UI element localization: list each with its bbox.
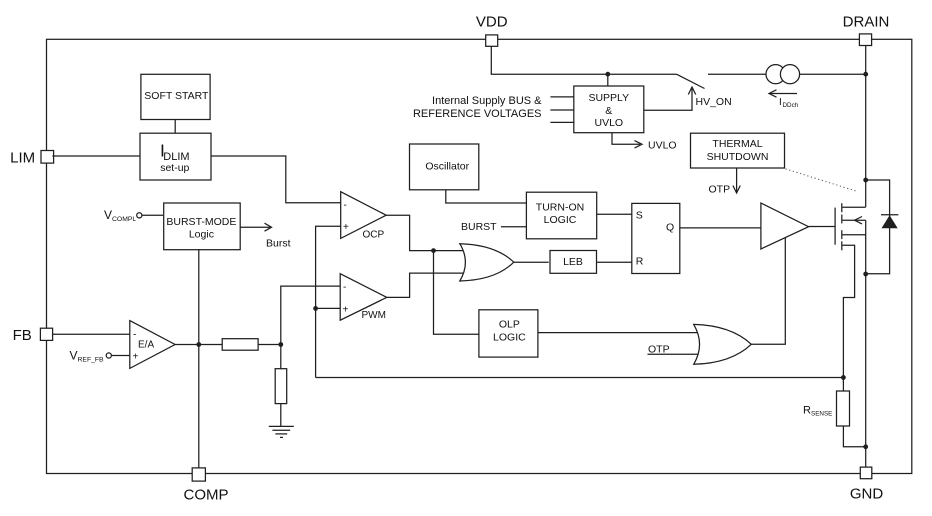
svg-text:S: S bbox=[636, 209, 643, 221]
block IDLIM set-up bbox=[140, 133, 211, 180]
wire DRAIN pin to drain rail bbox=[865, 46, 867, 208]
wire COMP rail (BURST-MODE bottom to COMP pin) bbox=[198, 249, 200, 468]
svg-text:-: - bbox=[344, 200, 347, 211]
wire thermal dotted link bbox=[786, 169, 858, 192]
svg-text:Q: Q bbox=[666, 221, 674, 233]
svg-text:+: + bbox=[343, 222, 349, 233]
wire supply tap to SUPPLY box bbox=[607, 74, 609, 86]
resistor R2 vertical bbox=[275, 369, 287, 404]
svg-text:REFERENCE VOLTAGES: REFERENCE VOLTAGES bbox=[413, 108, 542, 120]
wire R2 to ground bbox=[280, 404, 282, 427]
wire drain dash bbox=[843, 206, 866, 208]
svg-text:TURN-ON: TURN-ON bbox=[536, 202, 584, 214]
svg-text:LOGIC: LOGIC bbox=[493, 331, 526, 343]
node E/A output junction bbox=[196, 342, 201, 347]
wire LIM to IDLIM bbox=[52, 155, 140, 157]
node divider junction bbox=[278, 342, 283, 347]
block TURN-ON LOGIC bbox=[526, 192, 596, 239]
svg-text:COMP: COMP bbox=[184, 487, 229, 504]
svg-text:V: V bbox=[104, 208, 112, 222]
pin VDD bbox=[476, 13, 508, 46]
block BURST-MODE Logic bbox=[164, 203, 241, 250]
wire Oscillator to TURN-ON LOGIC bbox=[446, 190, 527, 203]
node drain rail top junction bbox=[863, 72, 868, 77]
svg-text:THERMAL: THERMAL bbox=[712, 138, 762, 150]
wire switch to current source bbox=[708, 73, 766, 75]
svg-text:R: R bbox=[636, 256, 644, 268]
node source rail bottom junction bbox=[863, 444, 868, 449]
svg-text:LIM: LIM bbox=[10, 149, 35, 166]
wire PWM output to OR1 bottom input bbox=[387, 273, 467, 297]
wire supply bus stubs bbox=[550, 97, 573, 123]
svg-text:DLIM: DLIM bbox=[163, 151, 189, 163]
svg-text:+: + bbox=[343, 304, 349, 315]
wire VCOMPL to BURST-MODE bbox=[142, 214, 163, 216]
wire OTP to OR2 bottom input bbox=[648, 353, 701, 355]
resistor RSENSE bbox=[837, 391, 850, 426]
node OCP-OLP junction bbox=[431, 248, 436, 253]
wire driver to MOSFET gate bbox=[809, 226, 836, 228]
wire OCP output to OR1 top input bbox=[386, 215, 467, 250]
block LEB bbox=[550, 251, 597, 274]
block OLP LOGIC bbox=[479, 310, 538, 357]
svg-text:LEB: LEB bbox=[563, 256, 583, 268]
wire OR1 output to LEB bbox=[514, 261, 549, 263]
svg-text:DDch: DDch bbox=[783, 102, 799, 109]
pin DRAIN bbox=[843, 13, 890, 45]
pin LIM bbox=[10, 149, 53, 166]
node VCOMPL terminal bbox=[137, 213, 142, 218]
op-amp E/A bbox=[130, 321, 175, 369]
gate OR2 bbox=[694, 324, 752, 364]
pin FB bbox=[13, 327, 53, 344]
wire R1 to divider node bbox=[258, 344, 281, 346]
node supply tap junction bbox=[605, 72, 610, 77]
wire IDLIM to OCP minus bbox=[211, 156, 341, 203]
svg-text:SUPPLY: SUPPLY bbox=[588, 92, 629, 104]
svg-text:UVLO: UVLO bbox=[595, 117, 624, 129]
block THERMAL SHUTDOWN bbox=[691, 133, 785, 168]
ground bbox=[269, 426, 294, 437]
svg-text:E/A: E/A bbox=[138, 340, 154, 351]
comparator OCP bbox=[341, 192, 387, 241]
wire BURST to TURN-ON LOGIC bbox=[501, 226, 527, 228]
svg-text:-: - bbox=[343, 282, 346, 293]
svg-text:VDD: VDD bbox=[476, 13, 508, 30]
diode D1 body diode bbox=[866, 180, 899, 274]
svg-text:REF_FB: REF_FB bbox=[78, 357, 105, 364]
resistor R1 horizontal bbox=[222, 339, 258, 351]
wire body dash with arrow bbox=[843, 219, 866, 221]
switch HV_ON blade bbox=[677, 74, 705, 88]
svg-text:LOGIC: LOGIC bbox=[544, 214, 577, 226]
svg-text:set-up: set-up bbox=[160, 162, 189, 174]
svg-text:HV_ON: HV_ON bbox=[696, 96, 732, 108]
wire OTP output arrow down bbox=[709, 168, 741, 196]
node PWM plus junction bbox=[313, 306, 318, 311]
svg-text:DRAIN: DRAIN bbox=[843, 13, 890, 30]
wire main source dash bbox=[843, 234, 866, 236]
svg-text:PWM: PWM bbox=[362, 310, 386, 321]
wire sense vertical to OCP plus and PWM plus bbox=[316, 226, 341, 377]
svg-text:GND: GND bbox=[850, 485, 884, 502]
block SOFT START bbox=[141, 74, 210, 119]
wire UVLO output arrow bbox=[612, 133, 677, 152]
wire SUPPLY to HV_ON arrow bbox=[644, 87, 732, 110]
svg-text:SHUTDOWN: SHUTDOWN bbox=[707, 151, 769, 163]
node body diode bottom junction bbox=[863, 272, 868, 277]
svg-text:Burst: Burst bbox=[266, 238, 291, 250]
wire OR2 output to driver gate disable bbox=[751, 237, 785, 344]
svg-text:BURST-MODE: BURST-MODE bbox=[166, 216, 236, 228]
svg-text:OTP: OTP bbox=[709, 184, 731, 196]
svg-text:Oscillator: Oscillator bbox=[425, 160, 469, 172]
wire junction to OLP LOGIC bbox=[434, 251, 479, 335]
pin COMP bbox=[184, 468, 229, 504]
outer IC boundary bbox=[47, 39, 912, 473]
svg-text:OLP: OLP bbox=[499, 319, 520, 331]
block Oscillator bbox=[410, 144, 479, 190]
comparator PWM bbox=[340, 274, 387, 321]
pin GND bbox=[850, 467, 884, 502]
svg-text:V: V bbox=[70, 349, 78, 363]
svg-text:-: - bbox=[133, 329, 136, 340]
wire VDD to supply rail bbox=[491, 46, 676, 74]
wire LEB to latch R bbox=[597, 261, 632, 263]
wire VREF_FB to E/A plus bbox=[111, 355, 129, 357]
wire FB to E/A minus bbox=[53, 333, 130, 335]
svg-text:&: & bbox=[605, 105, 612, 117]
wire TURN-ON LOGIC to latch S bbox=[597, 213, 632, 215]
svg-text:Internal Supply BUS &: Internal Supply BUS & bbox=[432, 95, 542, 107]
svg-text:OCP: OCP bbox=[363, 230, 385, 241]
svg-text:BURST: BURST bbox=[461, 221, 497, 233]
node sense tap junction bbox=[841, 375, 846, 380]
wire OLP LOGIC to OR2 top input bbox=[538, 332, 701, 334]
wire PWM plus tap bbox=[316, 307, 341, 309]
wire RSENSE return bbox=[843, 426, 865, 447]
current source IDDch bbox=[766, 65, 800, 84]
wire SOFT START to IDLIM bbox=[174, 120, 176, 133]
latch SR bbox=[632, 203, 680, 273]
transistor M1 power MOSFET bbox=[835, 203, 866, 250]
wire E/A output bbox=[175, 344, 222, 346]
wire sense source jog bbox=[843, 245, 855, 391]
block SUPPLY & UVLO bbox=[574, 86, 644, 133]
svg-text:R: R bbox=[803, 405, 811, 417]
svg-text:FB: FB bbox=[13, 327, 32, 344]
node VREF_FB terminal bbox=[106, 353, 111, 358]
gate OR1 bbox=[460, 244, 514, 281]
wire current-sense feedback line bbox=[316, 377, 844, 379]
wire latch Q to driver bbox=[680, 227, 761, 229]
label IDDch with arrow bbox=[769, 90, 799, 109]
svg-text:SENSE: SENSE bbox=[811, 411, 832, 418]
svg-text:UVLO: UVLO bbox=[648, 139, 677, 151]
svg-text:SOFT START: SOFT START bbox=[144, 90, 209, 102]
wire divider node to PWM minus bbox=[281, 286, 340, 344]
svg-text:I: I bbox=[779, 97, 782, 108]
wire Burst output arrow bbox=[240, 223, 290, 249]
driver buffer bbox=[761, 203, 809, 249]
svg-text:COMPL: COMPL bbox=[112, 216, 136, 223]
node diode top junction bbox=[863, 178, 868, 183]
wire current source to drain rail bbox=[800, 73, 866, 75]
svg-text:Logic: Logic bbox=[189, 229, 214, 241]
wire divider node to R2 bbox=[280, 345, 282, 369]
svg-text:+: + bbox=[133, 351, 139, 362]
wire source rail to GND bbox=[865, 220, 867, 467]
